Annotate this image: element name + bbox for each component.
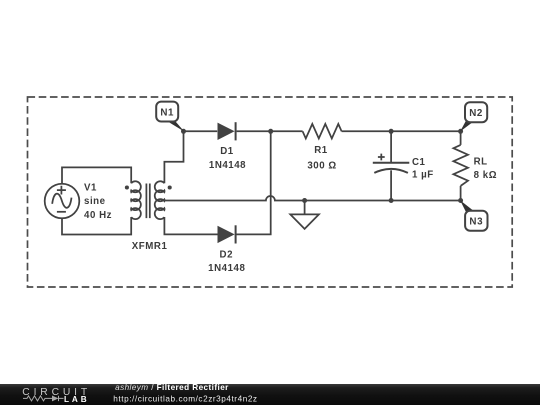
wire secondary top to node N1 <box>164 131 183 183</box>
wire C1 bottom lead <box>390 170 392 200</box>
junction dot C1 top <box>389 129 394 134</box>
node flag N1 <box>156 102 184 132</box>
dashed schematic boundary <box>28 97 513 287</box>
junction dot RL top (N2) <box>458 129 463 134</box>
wire N1 node to D1 anode <box>184 130 218 132</box>
transformer XFMR1 secondary winding <box>155 181 165 219</box>
svg-text:http://circuitlab.com/c2zr3p4t: http://circuitlab.com/c2zr3p4tr4n2z <box>113 395 257 404</box>
footer bar <box>0 384 540 405</box>
svg-text:D2: D2 <box>220 249 233 260</box>
svg-text:RL: RL <box>474 156 488 167</box>
junction dot C1 bottom <box>389 198 394 203</box>
svg-text:R1: R1 <box>314 145 328 156</box>
svg-text:1N4148: 1N4148 <box>208 263 245 274</box>
svg-text:ashleym / Filtered Rectifier: ashleym / Filtered Rectifier <box>115 383 229 392</box>
svg-text:V1: V1 <box>84 183 97 194</box>
wire R1 to RL top (top rail) <box>342 130 461 132</box>
junction dot ground <box>302 198 307 203</box>
junction dot D1/D2/R1 <box>268 129 273 134</box>
label D1 1N4148 <box>209 146 246 171</box>
ground <box>290 201 319 229</box>
svg-text:1 µF: 1 µF <box>412 170 434 181</box>
capacitor C1 <box>373 154 410 173</box>
svg-text:40 Hz: 40 Hz <box>84 210 112 221</box>
wire D1 cathode to R1 <box>237 130 303 132</box>
wire RL top lead <box>460 131 462 145</box>
node flag N3 <box>460 200 487 231</box>
svg-text:N2: N2 <box>469 108 483 119</box>
wire V1 bottom to primary bottom <box>62 217 131 235</box>
label C1 1uF <box>412 157 434 180</box>
wire C1 top lead <box>390 131 392 162</box>
transformer XFMR1 primary winding <box>131 181 141 219</box>
svg-text:D1: D1 <box>220 146 234 157</box>
svg-text:8 kΩ: 8 kΩ <box>474 170 497 181</box>
label R1 300 Ohm <box>307 145 336 172</box>
secondary phase dot <box>168 185 172 189</box>
label RL 8kOhm <box>474 156 497 181</box>
wire D2 cathode up to top rail <box>235 131 271 234</box>
svg-text:C1: C1 <box>412 157 426 168</box>
junction dot RL bottom (N3) <box>458 198 463 203</box>
svg-text:LAB: LAB <box>64 395 90 404</box>
svg-text:300 Ω: 300 Ω <box>307 160 336 171</box>
diode D2 <box>218 225 236 243</box>
svg-text:sine: sine <box>84 196 106 207</box>
wire bottom rail with hop over D2 vertical <box>164 196 460 201</box>
voltage source V1 <box>45 184 80 219</box>
svg-text:N1: N1 <box>160 107 174 118</box>
node flag N2 <box>460 102 487 131</box>
CircuitLab logo resistor-diode glyph <box>23 396 64 401</box>
resistor R1 <box>303 124 342 139</box>
transformer core <box>146 184 149 219</box>
label D2 1N4148 <box>208 249 245 274</box>
svg-text:1N4148: 1N4148 <box>209 160 246 171</box>
svg-text:N3: N3 <box>469 217 483 228</box>
wire V1 top to primary top <box>62 167 131 183</box>
svg-text:XFMR1: XFMR1 <box>132 241 168 252</box>
wire RL bottom lead <box>460 186 462 201</box>
primary phase dot <box>125 185 129 189</box>
junction node dot (N1) <box>181 129 186 134</box>
wire secondary bottom to D2 anode <box>164 217 217 234</box>
label V1 sine 40 Hz <box>84 183 112 221</box>
diode D1 <box>218 122 236 140</box>
resistor RL <box>453 145 468 186</box>
